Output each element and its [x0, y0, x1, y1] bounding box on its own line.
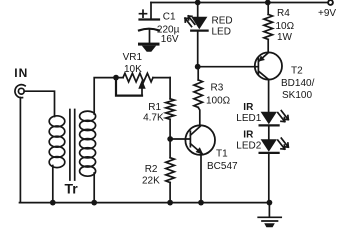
svg-text:R3: R3 [211, 83, 224, 94]
svg-text:IR: IR [243, 130, 254, 141]
svg-text:22K: 22K [142, 176, 160, 187]
label IR (LED2) [243, 130, 254, 141]
junction: secondary / rail [91, 200, 97, 206]
label R4 [277, 8, 290, 19]
svg-text:IN: IN [14, 66, 28, 80]
diode IR LED2 [260, 139, 279, 153]
junction: R1 / R2 / T1 base [167, 136, 173, 142]
resistor R2 [166, 139, 175, 203]
wire: T1 emitter to ground rail [200, 155, 202, 203]
resistor R1 [166, 78, 175, 139]
svg-text:T2: T2 [291, 65, 303, 76]
label 10Ω [276, 21, 295, 32]
junction: R2 / rail [167, 200, 173, 206]
junction: LED / R3 / T2 base [195, 64, 201, 70]
potentiometer VR1 [123, 73, 170, 95]
capacitor C1 [139, 3, 159, 44]
transformer Tr secondary winding [80, 111, 96, 176]
label R3 [211, 83, 224, 94]
svg-text:VR1: VR1 [123, 52, 143, 63]
junction: VR1 left / wiper [113, 75, 119, 81]
junction: primary / rail [50, 200, 56, 206]
label LED2 [236, 140, 261, 151]
IR LED2 emission arrows [278, 138, 289, 149]
svg-text:4.7K: 4.7K [143, 113, 164, 124]
svg-text:R1: R1 [148, 102, 161, 113]
diode IR LED1 [260, 112, 279, 126]
wire: top +9V rail [151, 2, 328, 4]
wire: base junction to T1 [170, 138, 189, 140]
svg-text:LED: LED [212, 26, 231, 37]
label 220µ [157, 24, 180, 35]
label IR (LED1) [243, 102, 254, 113]
wire: rail to RED LED [197, 3, 199, 17]
label 1W [277, 32, 293, 43]
label T2 [291, 65, 303, 76]
diode RED LED [191, 17, 207, 31]
label VR1 [123, 52, 143, 63]
label Tr [65, 181, 79, 197]
svg-text:IR: IR [243, 102, 254, 113]
svg-text:C1: C1 [163, 12, 176, 23]
label SK100 [282, 90, 312, 101]
label T1 [216, 149, 228, 160]
junction: LED2 / rail / ground [267, 200, 273, 206]
svg-text:T1: T1 [216, 149, 228, 160]
label R2 [145, 164, 158, 175]
label LED [212, 26, 231, 37]
label BD140/ [281, 78, 315, 89]
RED LED emission arrows [185, 16, 195, 27]
terminal +9V [328, 0, 333, 5]
label 16V [161, 34, 179, 45]
wire: bottom ground rail [20, 202, 270, 204]
label +9V [318, 8, 336, 19]
wire: LED2 to ground rail [268, 154, 270, 203]
wire: jack tip to transformer primary [24, 91, 54, 116]
svg-text:16V: 16V [161, 34, 179, 45]
label IN [14, 66, 28, 80]
wire: primary bottom lead to rail [52, 166, 54, 203]
label LED1 [236, 113, 261, 124]
transformer Tr primary winding [49, 116, 65, 168]
ground (main) [258, 203, 281, 228]
svg-text:10Ω: 10Ω [276, 21, 295, 32]
label 4.7K [143, 113, 164, 124]
svg-text:LED2: LED2 [236, 140, 261, 151]
svg-text:10K: 10K [124, 64, 142, 75]
label R1 [148, 102, 161, 113]
transistor T2 [255, 52, 282, 79]
svg-text:100Ω: 100Ω [206, 96, 231, 107]
label C1 [163, 12, 176, 23]
junction: rail / R4 [265, 0, 271, 5]
svg-text:RED: RED [212, 16, 233, 27]
ground (C1) [138, 43, 160, 52]
label 10K [124, 64, 142, 75]
svg-text:SK100: SK100 [282, 90, 312, 101]
svg-text:R2: R2 [145, 164, 158, 175]
IR LED1 emission arrows [278, 111, 289, 122]
transistor T1 [185, 125, 215, 155]
label BC547 [207, 161, 238, 172]
junction: T1 emitter / rail [198, 200, 204, 206]
svg-text:R4: R4 [277, 8, 290, 19]
resistor R3 [194, 67, 203, 126]
label RED [212, 16, 233, 27]
svg-text:Tr: Tr [65, 181, 79, 197]
label 22K [142, 176, 160, 187]
transformer Tr core [70, 110, 75, 181]
connector IN jack [15, 85, 25, 98]
svg-text:BC547: BC547 [207, 161, 238, 172]
wire: LED1 to LED2 [268, 126, 270, 139]
svg-text:LED1: LED1 [236, 113, 261, 124]
wire: jack sleeve to ground rail [19, 98, 21, 203]
svg-text:+9V: +9V [318, 8, 336, 19]
wire: RED LED cathode to node [197, 32, 199, 67]
svg-text:1W: 1W [277, 32, 293, 43]
wire: transformer secondary to VR1 [94, 78, 123, 114]
wire: VR1 wiper return [116, 78, 142, 96]
wire: T2 collector to LED1 [268, 79, 270, 111]
wire: node to T2 base [198, 66, 258, 68]
junction: rail / RED LED [195, 0, 201, 5]
resistor R4 [264, 3, 273, 53]
svg-text:BD140/: BD140/ [281, 78, 315, 89]
label 100Ω [206, 96, 231, 107]
wire: secondary bottom lead to rail [93, 173, 95, 203]
